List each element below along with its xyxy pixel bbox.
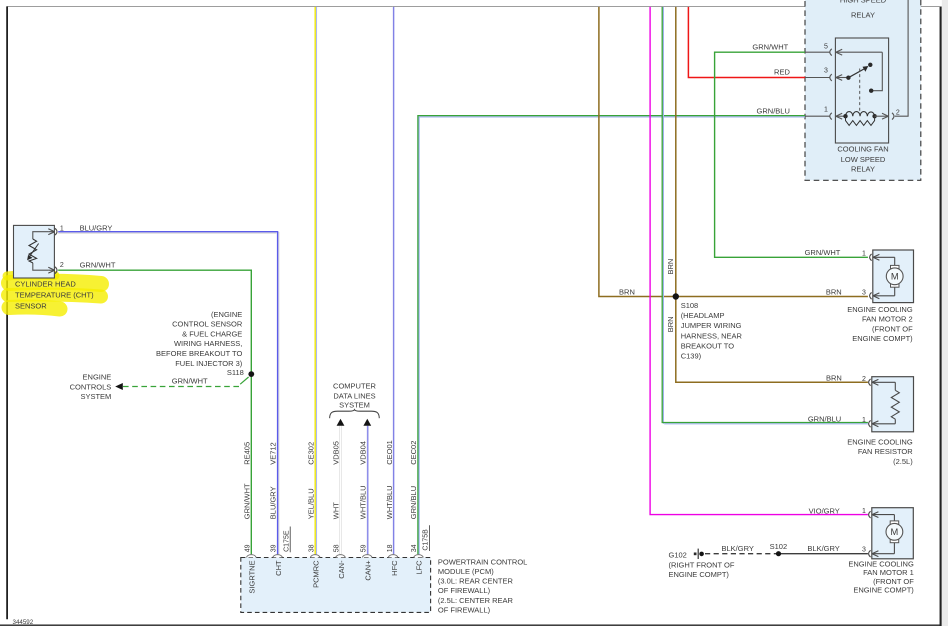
svg-text:VDB04: VDB04 xyxy=(358,441,367,465)
svg-text:DATA LINES: DATA LINES xyxy=(333,391,375,400)
svg-text:C139): C139) xyxy=(681,352,702,361)
svg-text:38: 38 xyxy=(308,544,315,552)
svg-text:RED: RED xyxy=(774,68,790,77)
wire GRN/BLU from top to fan resistor pin 1 xyxy=(662,7,868,424)
PCM connector bump pin 34 xyxy=(414,555,424,558)
highlight marker over CHT sensor caption xyxy=(7,275,101,309)
svg-text:CEO01: CEO01 xyxy=(385,440,394,465)
svg-text:(HEADLAMP: (HEADLAMP xyxy=(681,311,725,320)
svg-text:CHT: CHT xyxy=(274,560,283,576)
relay pin 1 stub, arc and arrow xyxy=(805,113,846,120)
splice S102 junction dot xyxy=(776,551,781,556)
relay actuator dashed line xyxy=(859,69,861,114)
svg-text:OF FIREWALL): OF FIREWALL) xyxy=(438,605,491,614)
svg-text:RELAY: RELAY xyxy=(851,165,875,174)
svg-text:LOW SPEED: LOW SPEED xyxy=(841,155,886,164)
brace for computer data lines system xyxy=(330,410,380,419)
svg-text:BRN: BRN xyxy=(826,374,842,383)
PCM powertrain control module box (dashed) xyxy=(241,558,431,613)
fan motor 1 pin 3 arc and arrow xyxy=(869,543,895,557)
svg-text:1: 1 xyxy=(862,417,866,424)
svg-text:HARNESS, NEAR: HARNESS, NEAR xyxy=(681,331,743,340)
motor M1 symbol xyxy=(886,521,903,543)
fan resistor pin 1 arc and arrow xyxy=(869,419,896,427)
relay box K-low-speed outer (cooling fan low speed relay, dashed) xyxy=(805,0,921,180)
svg-text:SYSTEM: SYSTEM xyxy=(339,400,370,409)
svg-text:58: 58 xyxy=(334,544,341,552)
svg-text:YEL/BLU: YEL/BLU xyxy=(306,488,315,519)
svg-text:WHT: WHT xyxy=(332,502,341,519)
svg-text:& FUEL CHARGE: & FUEL CHARGE xyxy=(182,330,242,339)
wire BLU/GRY sensor pin 1 to PCM pin 39 xyxy=(58,232,279,555)
wire RED from top to relay pin 3 xyxy=(688,7,805,78)
svg-text:BLK/GRY: BLK/GRY xyxy=(722,544,754,553)
wire GRN/WHT dashed to engine controls system xyxy=(240,377,248,384)
wire BRN main from top through S108 to fan resistor pin 2 xyxy=(676,7,868,382)
svg-text:1: 1 xyxy=(824,107,828,114)
svg-text:(FRONT OF: (FRONT OF xyxy=(872,324,913,333)
svg-text:BRN: BRN xyxy=(666,316,675,332)
svg-text:BLU/GRY: BLU/GRY xyxy=(80,223,113,232)
BORDERS xyxy=(7,6,940,8)
svg-text:BREAKOUT TO: BREAKOUT TO xyxy=(681,341,735,350)
svg-text:RELAY: RELAY xyxy=(851,10,875,19)
svg-text:ENGINE COMPT): ENGINE COMPT) xyxy=(852,334,913,343)
svg-text:WHT/BLU: WHT/BLU xyxy=(385,485,394,519)
svg-text:M: M xyxy=(891,272,899,282)
wire BLK/GRY solid S102 to fan motor 1 pin 3 xyxy=(779,553,868,555)
svg-text:VDB05: VDB05 xyxy=(332,441,341,465)
splice S118 junction dot xyxy=(248,371,254,377)
arrow CAN- to computer data lines xyxy=(337,419,345,426)
svg-text:ENGINE: ENGINE xyxy=(83,373,112,382)
label S108 (HEADLAMP JUMPER WIRING HARNESS, NEAR BREAKOUT TO C139) xyxy=(681,301,743,361)
svg-text:FAN MOTOR 1: FAN MOTOR 1 xyxy=(863,568,914,577)
CHT sensor pin 2 arrow and arc xyxy=(48,267,57,274)
svg-text:34: 34 xyxy=(411,544,418,552)
svg-text:CE302: CE302 xyxy=(306,442,315,465)
wire BRN from splice S108 to fan motor 2 pin 3 xyxy=(674,296,868,298)
svg-text:GRN/WHT: GRN/WHT xyxy=(80,260,116,269)
wire WHT CAN- from arrow to PCM pin 58 xyxy=(339,426,341,555)
fan resistor pin 2 arc and arrow xyxy=(869,379,896,390)
relay inner case box xyxy=(835,38,888,143)
node COMPUTER DATA LINES SYSTEM xyxy=(333,382,377,410)
label ENGINE COOLING FAN MOTOR 2 (FRONT OF ENGINE COMPT) xyxy=(847,305,913,343)
fan resistor element zigzag xyxy=(891,390,899,419)
svg-text:SYSTEM: SYSTEM xyxy=(80,392,111,401)
svg-text:ENGINE COMPT): ENGINE COMPT) xyxy=(669,570,730,579)
svg-text:WHT/BLU: WHT/BLU xyxy=(358,485,367,519)
fan motor 2 pin 1 arc and arrow xyxy=(870,254,895,266)
svg-text:3: 3 xyxy=(824,67,828,74)
relay parallel resistor zigzag xyxy=(846,116,875,125)
svg-text:FAN MOTOR 2: FAN MOTOR 2 xyxy=(862,315,913,324)
svg-text:COMPUTER: COMPUTER xyxy=(333,382,377,391)
svg-text:RE405: RE405 xyxy=(242,442,251,465)
svg-text:ENGINE COMPT): ENGINE COMPT) xyxy=(853,586,914,595)
wire WHT/BLU CAN+ from arrow to PCM pin 59 xyxy=(367,426,368,555)
CHT thermistor zigzag xyxy=(29,239,37,263)
relay pin 3 stub, arc and arrow xyxy=(805,74,848,81)
svg-text:POWERTRAIN CONTROL: POWERTRAIN CONTROL xyxy=(438,557,527,566)
svg-text:G102: G102 xyxy=(669,550,687,559)
svg-text:(FRONT OF: (FRONT OF xyxy=(873,577,914,586)
svg-text:SENSOR: SENSOR xyxy=(15,302,47,311)
fan motor M1 box xyxy=(872,508,914,559)
svg-text:JUMPER WIRING: JUMPER WIRING xyxy=(681,321,742,330)
wire BLK/GRY dashed G102 to S102 xyxy=(705,553,779,555)
arrow CAN+ to computer data lines xyxy=(363,419,371,426)
fan resistor R box xyxy=(872,377,914,432)
svg-text:(3.0L: REAR CENTER: (3.0L: REAR CENTER xyxy=(438,577,514,586)
svg-text:ENGINE COOLING: ENGINE COOLING xyxy=(847,305,913,314)
svg-text:(2.5L: CENTER REAR: (2.5L: CENTER REAR xyxy=(438,596,514,605)
svg-text:S102: S102 xyxy=(770,542,788,551)
PCM connector bump pin 38 xyxy=(310,555,320,558)
relay pin 2 arrow, arc and wire up xyxy=(875,0,909,120)
relay switch: pin5 wire to NO contact xyxy=(873,52,882,90)
svg-text:18: 18 xyxy=(387,544,394,552)
svg-text:ENGINE COOLING: ENGINE COOLING xyxy=(848,560,914,569)
svg-text:344592: 344592 xyxy=(13,619,34,626)
svg-text:(2.5L): (2.5L) xyxy=(893,457,913,466)
svg-text:GRN/WHT: GRN/WHT xyxy=(242,483,251,519)
svg-text:39: 39 xyxy=(271,544,278,552)
wire GRN/WHT relay pin 5 to fan motor 2 pin 1 xyxy=(715,52,868,257)
svg-text:S118: S118 xyxy=(227,368,244,377)
svg-text:SIGRTNE: SIGRTNE xyxy=(248,560,257,593)
svg-text:1: 1 xyxy=(862,250,866,257)
wire WHT/BLU HFC from top to PCM pin 18 xyxy=(393,7,394,554)
svg-text:CONTROL SENSOR: CONTROL SENSOR xyxy=(172,320,243,329)
CHT sensor pin 1 arrow and arc xyxy=(48,228,57,235)
svg-text:1: 1 xyxy=(862,508,866,515)
svg-text:BLU/GRY: BLU/GRY xyxy=(269,486,278,519)
svg-text:PCMRC: PCMRC xyxy=(312,560,321,588)
svg-text:BRN: BRN xyxy=(619,287,635,296)
label CYLINDER HEAD TEMPERATURE (CHT) SENSOR xyxy=(15,280,94,311)
svg-text:C175E: C175E xyxy=(283,530,290,552)
svg-text:BRN: BRN xyxy=(826,287,842,296)
svg-text:BRN: BRN xyxy=(666,259,675,275)
svg-text:59: 59 xyxy=(360,544,367,552)
label (ENGINE CONTROL SENSOR & FUEL CHARGE WIRING HARNESS, BEFORE BREAKOUT TO FUEL INJECTOR 3) xyxy=(156,310,244,377)
label ENGINE COOLING FAN RESISTOR (2.5L) xyxy=(847,438,913,466)
svg-text:2: 2 xyxy=(60,262,64,269)
ground G102 symbol xyxy=(694,553,697,556)
svg-text:GRN/BLU: GRN/BLU xyxy=(808,414,841,423)
relay coil bumps between pins 1 and 2 xyxy=(846,112,875,117)
PCM connector bump pin 58 xyxy=(336,555,346,558)
label G102 (RIGHT FRONT OF ENGINE COMPT) xyxy=(669,550,735,579)
fan motor 2 pin 3 arc and arrow xyxy=(870,287,895,299)
svg-text:FUEL INJECTOR 3): FUEL INJECTOR 3) xyxy=(175,359,243,368)
PCM connector bump pin 59 xyxy=(362,555,372,558)
svg-text:TEMPERATURE (CHT): TEMPERATURE (CHT) xyxy=(15,291,94,300)
svg-text:ENGINE COOLING: ENGINE COOLING xyxy=(847,438,913,447)
PCM connector bump pin 39 xyxy=(273,555,283,558)
PCM connector bump pin 18 xyxy=(388,555,398,558)
svg-text:(ENGINE: (ENGINE xyxy=(211,310,242,319)
svg-text:LFC: LFC xyxy=(414,560,423,575)
svg-text:BEFORE BREAKOUT TO: BEFORE BREAKOUT TO xyxy=(156,349,242,358)
wire GRN/WHT sensor pin 2 to PCM pin 49 xyxy=(58,270,251,554)
svg-text:VE712: VE712 xyxy=(269,442,278,465)
svg-text:COOLING FAN: COOLING FAN xyxy=(837,145,888,154)
svg-text:MODULE (PCM): MODULE (PCM) xyxy=(438,567,494,576)
relay switch blade and contacts xyxy=(846,76,850,80)
svg-text:3: 3 xyxy=(862,546,866,553)
svg-text:M: M xyxy=(891,527,899,537)
label POWERTRAIN CONTROL MODULE (PCM) location xyxy=(438,557,527,614)
wire VIO/GRY from top to fan motor 1 pin 1 xyxy=(650,7,868,515)
svg-text:CONTROLS: CONTROLS xyxy=(70,382,112,391)
svg-text:S108: S108 xyxy=(681,301,699,310)
svg-text:GRN/WHT: GRN/WHT xyxy=(752,42,788,51)
splice S108 junction dot xyxy=(673,293,679,299)
svg-text:CAN-: CAN- xyxy=(337,560,346,579)
svg-text:GRN/BLU: GRN/BLU xyxy=(757,107,790,116)
relay pin 5 stub, arc and arrow xyxy=(805,49,882,56)
svg-text:GRN/WHT: GRN/WHT xyxy=(805,248,841,257)
svg-text:CAN+: CAN+ xyxy=(364,560,373,581)
svg-text:C175B: C175B xyxy=(423,529,430,551)
wire GRN/BLU LFC from PCM pin 34 to relay pin 1 xyxy=(418,116,805,555)
wire YEL/BLU from top to PCM pin 38 xyxy=(315,7,316,554)
motor M2 symbol xyxy=(886,265,903,287)
svg-text:1: 1 xyxy=(60,225,64,232)
label ENGINE COOLING FAN MOTOR 1 (FRONT OF ENGINE COMPT) xyxy=(848,560,914,595)
relay internals: title HIGH SPEED RELAY (cut at top) xyxy=(840,0,887,19)
svg-text:3: 3 xyxy=(862,289,866,296)
wire BRN from top to splice S108 xyxy=(599,7,674,297)
svg-text:VIO/GRY: VIO/GRY xyxy=(809,506,840,515)
cylinder head temperature (CHT) sensor box xyxy=(14,225,55,278)
svg-text:HFC: HFC xyxy=(390,560,399,576)
svg-text:49: 49 xyxy=(244,544,251,552)
svg-text:CYLINDER HEAD: CYLINDER HEAD xyxy=(15,280,76,289)
svg-text:(RIGHT FRONT OF: (RIGHT FRONT OF xyxy=(669,560,735,569)
svg-text:WIRING HARNESS,: WIRING HARNESS, xyxy=(174,339,242,348)
svg-text:OF FIREWALL): OF FIREWALL) xyxy=(438,586,491,595)
svg-text:BLK/GRY: BLK/GRY xyxy=(807,544,839,553)
fan motor M2 box xyxy=(873,250,914,303)
svg-text:2: 2 xyxy=(862,376,866,383)
svg-text:FAN RESISTOR: FAN RESISTOR xyxy=(858,447,913,456)
relay title COOLING FAN LOW SPEED RELAY xyxy=(837,145,888,174)
node ENGINE CONTROLS SYSTEM xyxy=(70,373,112,401)
CHT sensor internal wire xyxy=(33,232,49,239)
svg-text:2: 2 xyxy=(896,109,900,116)
CHT thermistor arrow xyxy=(29,244,39,258)
svg-text:GRN/BLU: GRN/BLU xyxy=(409,486,418,519)
svg-text:CEC02: CEC02 xyxy=(409,441,418,465)
svg-text:5: 5 xyxy=(824,43,828,50)
PCM connector bump pin 49 xyxy=(247,555,257,558)
svg-text:GRN/WHT: GRN/WHT xyxy=(172,376,208,385)
svg-text:HIGH SPEED: HIGH SPEED xyxy=(840,0,887,4)
fan motor 1 pin 1 arc and arrow xyxy=(869,511,895,521)
